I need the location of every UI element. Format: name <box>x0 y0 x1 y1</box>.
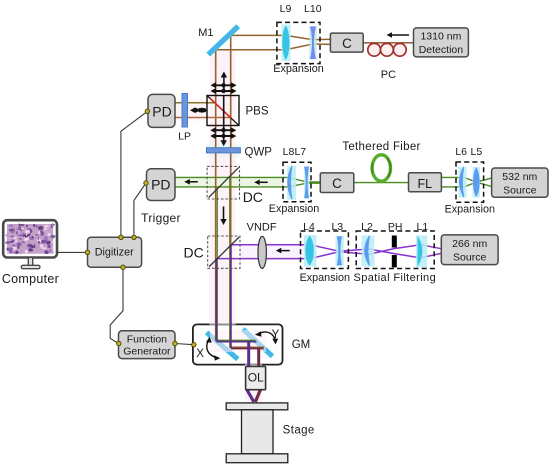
svg-text:PC: PC <box>381 69 396 81</box>
polarization double arrow with dot above PBS row1 <box>211 82 237 88</box>
1310nm fiber C to detection <box>363 42 414 44</box>
computer base <box>21 265 40 268</box>
svg-text:X: X <box>196 348 204 360</box>
lens L6 <box>458 167 466 198</box>
svg-text:Trigger: Trigger <box>141 211 181 225</box>
svg-text:Expansion: Expansion <box>445 204 495 216</box>
polarization dots arrow between LP and PBS <box>190 107 207 113</box>
expansion dashed box L4 L3 <box>301 231 349 269</box>
532 nm source box <box>492 168 548 197</box>
digitizer box <box>88 237 142 267</box>
polarization controller PC coils <box>368 43 406 56</box>
532nm beam upper edge PD to L8 <box>175 177 320 182</box>
svg-text:532 nm: 532 nm <box>502 171 537 183</box>
wire PD2 to digitizer <box>134 183 146 237</box>
beam halo vertical <box>210 50 236 325</box>
svg-text:Expansion: Expansion <box>300 272 350 284</box>
expansion dashed box L8 L7 <box>283 162 311 202</box>
wire digitizer to function generator <box>110 267 123 343</box>
galvanometer scanner box GM <box>193 324 283 364</box>
svg-text:L1: L1 <box>417 221 429 233</box>
svg-text:Detection: Detection <box>419 44 464 56</box>
focus cone right stroke <box>255 390 260 402</box>
svg-text:L6: L6 <box>455 146 467 158</box>
connection dots <box>85 109 196 347</box>
svg-text:VNDF: VNDF <box>247 222 277 234</box>
532nm vertical beam right DC1 to GM <box>229 178 231 348</box>
linear polarizer LP <box>182 94 188 128</box>
galvo mirror Y <box>242 328 273 357</box>
reflected beam lower salmon PBS to PD <box>175 117 230 119</box>
dichroic combiner cube DC2 <box>208 236 240 268</box>
lens L2 <box>362 236 375 267</box>
lens L9 <box>282 25 291 62</box>
532nm beam FL to L6 upper then cross to source <box>441 177 491 186</box>
1310nm horizontal beam in GM lower <box>230 346 265 348</box>
svg-text:Expansion: Expansion <box>273 63 323 75</box>
1310nm horizontal beam upper M1 to L9 <box>229 35 331 39</box>
fiber loop shading <box>372 155 390 181</box>
svg-text:L4: L4 <box>303 221 315 233</box>
svg-text:M1: M1 <box>198 27 213 39</box>
dichroic combiner cube DC1 <box>207 166 239 199</box>
266nm beam line B source to DC2 <box>216 245 441 259</box>
1310nm vertical beam right M1 to GM <box>230 36 232 348</box>
1310nm horizontal beam lower M1 to L9 <box>213 44 331 50</box>
computer stand <box>28 258 32 266</box>
svg-text:1310 nm: 1310 nm <box>420 31 461 43</box>
tethered fiber loop <box>372 155 390 181</box>
reflected beam upper olive PBS to PD <box>175 102 214 104</box>
svg-text:Digitizer: Digitizer <box>95 246 134 258</box>
beam halo GM interior <box>210 330 266 352</box>
galvo Y rotation arrow <box>255 331 278 344</box>
266nm vertical beam right DC2 to GM <box>230 245 232 348</box>
svg-text:Stage: Stage <box>283 425 315 437</box>
lens L1 <box>416 236 427 268</box>
halo below QWP <box>207 153 241 157</box>
svg-text:L3: L3 <box>331 221 343 233</box>
svg-text:Generator: Generator <box>123 346 171 358</box>
lens L10 <box>309 26 316 60</box>
stage top plate <box>226 403 288 410</box>
PBS diagonal red beam segment <box>210 98 231 118</box>
PBS diagonal <box>207 96 238 125</box>
532nm horizontal beam in GM <box>217 339 256 341</box>
svg-text:L10: L10 <box>304 3 322 15</box>
wire function generator to GM <box>175 344 194 345</box>
svg-text:PH: PH <box>388 221 403 233</box>
svg-text:L2: L2 <box>361 221 373 233</box>
combined horizontal beam upper in GM <box>216 341 256 343</box>
svg-text:Source: Source <box>453 251 486 263</box>
lens L3 <box>336 236 344 266</box>
objective lens OL box <box>246 367 266 390</box>
beam halo PD arm <box>176 100 209 121</box>
beam arrow down PBS to QWP <box>221 96 227 146</box>
svg-text:Spatial Filtering: Spatial Filtering <box>353 272 436 284</box>
photodiode PD1 box <box>148 94 175 127</box>
polarization arrow up above PBS <box>221 72 227 94</box>
1310nm vertical beam left M1 to GM <box>215 51 217 341</box>
svg-text:L7: L7 <box>294 146 306 158</box>
svg-text:Source: Source <box>503 184 536 196</box>
beam arrow left on 532nm toward DC1 <box>254 180 268 186</box>
polarization double arrow with dot below PBS row1 <box>210 127 236 133</box>
266 nm source box <box>441 235 498 265</box>
beam arrow left 1310nm from detection <box>387 32 410 38</box>
svg-text:Y: Y <box>272 329 280 341</box>
fiber coupler C2 box <box>320 173 354 193</box>
svg-text:OL: OL <box>248 371 264 385</box>
svg-text:LP: LP <box>178 131 191 143</box>
beam arrow down DC1 to DC2 <box>220 207 226 226</box>
combined vertical beam GM to OL maroon <box>257 349 260 391</box>
variable neutral density filter VNDF <box>258 236 266 268</box>
svg-text:Expansion: Expansion <box>269 203 319 215</box>
wire PD1 to digitizer <box>121 111 147 237</box>
lens L5 <box>473 167 481 198</box>
pinhole PH bottom bar <box>392 255 397 267</box>
DC1 diagonal <box>209 168 239 198</box>
galvo mirror X <box>206 331 239 360</box>
beam halo violet arm <box>240 243 312 259</box>
svg-text:QWP: QWP <box>245 146 273 158</box>
combined horizontal beam lower in GM <box>231 348 264 350</box>
532nm beam lower edge PD to L8 <box>175 183 320 187</box>
1310 nm detection box <box>414 28 469 57</box>
svg-text:PBS: PBS <box>246 105 269 117</box>
svg-text:266 nm: 266 nm <box>452 238 487 250</box>
beam halo OL cone <box>245 364 262 401</box>
266nm beam line A source to DC2 <box>231 245 442 258</box>
mirror M1 <box>207 25 239 55</box>
photodiode PD2 box <box>147 169 176 201</box>
polarizing beamsplitter cube PBS <box>207 96 239 126</box>
svg-text:L5: L5 <box>471 146 483 158</box>
expansion dashed box L6 L5 <box>456 162 484 202</box>
beam arrow left on 266nm toward VNDF <box>276 248 290 254</box>
halo above QWP <box>207 144 241 148</box>
svg-text:PD: PD <box>151 177 170 193</box>
function generator box <box>119 331 176 359</box>
svg-text:Computer: Computer <box>2 272 59 286</box>
svg-text:C: C <box>342 36 352 51</box>
polarization double arrow with dot below PBS row2 <box>210 133 236 139</box>
galvo X rotation arrow <box>206 337 220 361</box>
532nm vertical beam left DC1 to GM <box>216 187 218 341</box>
266nm vertical beam left DC2 to GM <box>215 259 217 342</box>
svg-text:L8: L8 <box>283 146 295 158</box>
stage bottom plate <box>226 454 288 463</box>
computer screen histology image <box>5 224 55 255</box>
532nm beam pale band DC1 to PD <box>175 178 283 187</box>
svg-text:Tethered Fiber: Tethered Fiber <box>342 141 420 153</box>
DC2 diagonal <box>209 237 239 267</box>
fiber launcher FL box <box>409 173 442 192</box>
svg-text:C: C <box>332 176 342 191</box>
svg-text:DC: DC <box>243 189 263 205</box>
focus cone left stroke <box>247 390 254 402</box>
svg-text:DC: DC <box>184 245 204 261</box>
svg-text:PD: PD <box>152 104 171 120</box>
svg-text:Function: Function <box>127 334 167 346</box>
combined vertical beam GM to OL purple <box>247 342 250 390</box>
pinhole PH top bar <box>392 236 397 248</box>
spatial filtering dashed box L2 PH L1 <box>356 231 434 269</box>
wire computer to digitizer <box>57 251 88 253</box>
stage column <box>242 410 274 454</box>
lens L4 <box>304 235 317 267</box>
fiber coupler C1 box <box>330 33 363 52</box>
532nm fiber C to FL <box>354 182 409 184</box>
532nm beam FL to L6 lower then cross to source <box>441 178 491 187</box>
svg-text:L9: L9 <box>280 3 292 15</box>
quarter-wave plate QWP <box>207 148 241 153</box>
expansion dashed box L9 L10 <box>277 22 320 63</box>
svg-text:FL: FL <box>418 177 433 191</box>
svg-text:GM: GM <box>292 339 311 351</box>
lens L7 <box>304 166 309 198</box>
polarization double arrow with dot above PBS row2 <box>211 88 237 94</box>
beam arrow left on 532nm toward PD <box>184 179 198 185</box>
computer monitor frame <box>3 220 57 257</box>
lens L8 <box>287 166 296 200</box>
